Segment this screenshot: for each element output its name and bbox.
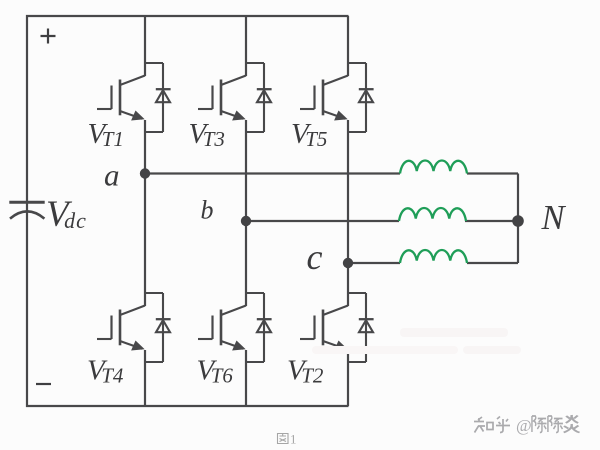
svg-text:VT5: VT5 bbox=[291, 118, 327, 151]
transistor VT6 (IGBT with antiparallel diode) bbox=[198, 293, 272, 362]
glyph 乎 bbox=[496, 417, 510, 433]
watermark 知乎 @陈陈炎 bbox=[474, 417, 510, 433]
svg-text:N: N bbox=[541, 199, 567, 237]
svg-text:c: c bbox=[307, 237, 323, 277]
capacitor Vdc curved bottom plate bbox=[10, 211, 44, 218]
faint artifact smudge 2 bbox=[312, 346, 458, 354]
node b junction dot bbox=[241, 216, 251, 226]
wire: phase-a leg lower segment bbox=[144, 350, 146, 406]
wire: phase-a output line left of inductor bbox=[145, 172, 400, 174]
glyph 炎 bbox=[564, 415, 580, 433]
plus polarity mark bbox=[41, 29, 56, 44]
svg-text:VT1: VT1 bbox=[88, 118, 124, 151]
transistor VT1 (IGBT with antiparallel diode) bbox=[97, 63, 171, 132]
wire: phase-c output line left of inductor bbox=[348, 262, 400, 264]
node N junction dot bbox=[512, 215, 524, 227]
wire: phase-b leg upper segment bbox=[245, 16, 247, 76]
transistor VT5 (IGBT with antiparallel diode) bbox=[300, 63, 374, 132]
wire: phase-c leg middle segment through node c bbox=[347, 120, 349, 306]
glyph 知 bbox=[474, 417, 485, 433]
node c junction dot bbox=[343, 258, 353, 268]
wire: phase-b leg middle segment through node b bbox=[245, 120, 247, 306]
wire: phase-b output line right of inductor bbox=[465, 220, 518, 222]
faint artifact smudge 3 bbox=[463, 346, 521, 354]
wire: phase-a output line right of inductor bbox=[467, 172, 518, 174]
svg-text:a: a bbox=[104, 158, 120, 193]
svg-text:b: b bbox=[201, 196, 214, 225]
transistor VT2 (IGBT with antiparallel diode) bbox=[300, 293, 374, 362]
wire: top rail, left rail, bottom rail bbox=[27, 16, 349, 406]
wire: right rail joining phases at node N bbox=[517, 174, 519, 264]
wire: phase-c leg upper segment bbox=[347, 16, 349, 76]
svg-text:VT2: VT2 bbox=[287, 355, 324, 388]
wire: phase-c output line right of inductor bbox=[467, 262, 518, 264]
svg-text:VT3: VT3 bbox=[189, 118, 225, 151]
wire: phase-b output line left of inductor bbox=[246, 220, 399, 222]
node a junction dot bbox=[140, 168, 150, 178]
svg-text:VT4: VT4 bbox=[87, 355, 124, 388]
svg-text:1: 1 bbox=[290, 432, 297, 447]
faint artifact smudge 1 bbox=[400, 328, 508, 337]
glyph 陈 (2) bbox=[548, 416, 563, 433]
svg-text:Vdc: Vdc bbox=[46, 194, 87, 235]
transistor VT4 (IGBT with antiparallel diode) bbox=[97, 293, 171, 362]
wire: phase-a leg middle segment through node a bbox=[144, 120, 146, 306]
capacitor Vdc top plate bbox=[9, 201, 44, 204]
inductor phase c bbox=[400, 250, 467, 263]
svg-text:@: @ bbox=[516, 416, 532, 435]
svg-text:VT6: VT6 bbox=[197, 355, 234, 388]
glyph 陈 (1) bbox=[532, 416, 547, 433]
caption 图1 bbox=[278, 434, 289, 444]
wire: phase-a leg upper segment bbox=[144, 16, 146, 76]
wire: phase-c leg lower segment bbox=[347, 350, 349, 406]
minus polarity mark bbox=[36, 383, 51, 385]
wire: phase-b leg lower segment bbox=[245, 350, 247, 406]
inductor phase b bbox=[399, 208, 466, 221]
inductor phase a bbox=[400, 161, 467, 174]
transistor VT3 (IGBT with antiparallel diode) bbox=[198, 63, 272, 132]
